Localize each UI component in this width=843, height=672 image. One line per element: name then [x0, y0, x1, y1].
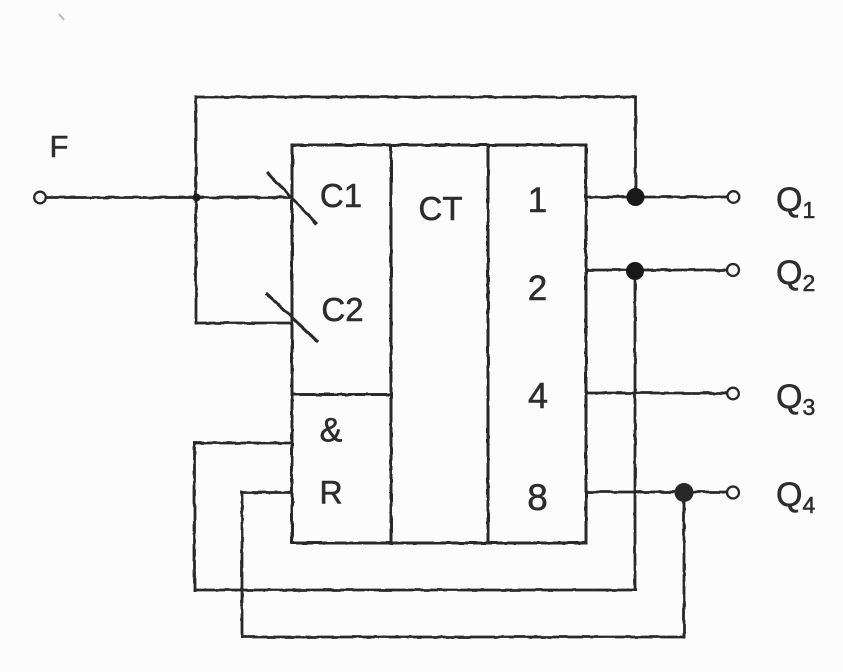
wire bottom return 2 horizontal [242, 636, 684, 639]
wire output 4 to Q3 [586, 392, 727, 395]
wire feedback top horizontal [196, 96, 636, 99]
wire feedback left vertical [195, 97, 198, 323]
wire output 8 to Q4 [586, 491, 727, 494]
wire left vertical to & input [193, 443, 196, 590]
wire output 2 to Q2 [586, 269, 727, 272]
wire into R input [242, 491, 292, 494]
wire F input to C1 [46, 196, 292, 199]
output terminal Q3 [727, 388, 739, 400]
dynamic input slash C1 [268, 173, 316, 223]
wire stub to C2 [196, 322, 292, 325]
junction node F/feedback crossing [193, 194, 201, 202]
reset sub-block top edge [292, 393, 391, 396]
internal divider right (CT/outputs) [487, 145, 490, 543]
stray scan speck [59, 14, 64, 20]
junction node Q1 [627, 188, 645, 206]
junction node Q2 [626, 262, 644, 280]
internal divider left (control/CT) [390, 145, 393, 543]
wire into & input [195, 442, 293, 445]
wire Q2 node vertical down [634, 271, 637, 590]
counter block U1 outline [292, 145, 586, 543]
wire bottom return 1 horizontal [195, 589, 636, 592]
wire output 1 to Q1 [586, 196, 728, 199]
junction node Q4 [675, 483, 694, 502]
output terminal Q4 [727, 487, 739, 499]
wire Q4 node vertical down [683, 493, 686, 638]
output terminal Q2 [727, 264, 739, 276]
wire feedback right vertical to Q1 node [634, 97, 637, 197]
input terminal F [34, 192, 46, 204]
dynamic input slash C2 [267, 294, 317, 341]
output terminal Q1 [728, 191, 740, 203]
wire left vertical to R input [241, 493, 244, 638]
